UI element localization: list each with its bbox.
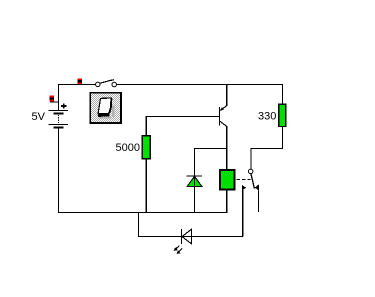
wire top rail left (battery to switch) xyxy=(58,84,96,86)
red indicator I2 (on top rail) xyxy=(78,78,83,84)
relay switch contacts (SPDT) xyxy=(242,169,259,190)
LED emission arrows xyxy=(174,246,183,254)
wire collector down to relay xyxy=(226,126,228,170)
wire diode branch through to bottom rail xyxy=(195,149,227,214)
wire resistor 5000 bottom xyxy=(145,159,147,213)
wire battery bottom to bottom rail xyxy=(58,128,60,213)
wire top rail right (switch to 330 corner) xyxy=(116,84,283,86)
svg-text:330: 330 xyxy=(258,110,276,122)
resistor R2 330 xyxy=(279,104,286,126)
wire relay bottom xyxy=(226,190,228,213)
LED D2 (pointing left) xyxy=(181,229,191,244)
battery B1 5V xyxy=(49,103,68,127)
wire emitter to top rail xyxy=(226,84,228,106)
resistor R1 5000 xyxy=(142,136,150,159)
svg-text:5000: 5000 xyxy=(116,142,140,154)
wire bottom rail xyxy=(58,211,227,213)
transistor Q1 (PNP) xyxy=(220,106,228,127)
wire battery top xyxy=(58,84,60,111)
wire 330 to relay common xyxy=(281,84,283,104)
switch SW1 (open, on top rail) xyxy=(96,80,117,87)
relay coil RL1 xyxy=(220,170,235,190)
node stub for red indicator 1 xyxy=(50,101,59,103)
wire LED branch xyxy=(139,212,244,236)
diode D1 (pointing up) xyxy=(187,176,202,186)
svg-text:5V: 5V xyxy=(32,111,46,123)
wire base elbow (resistor top to transistor base) xyxy=(146,117,219,136)
red indicator I1 (on battery stub) xyxy=(50,96,55,102)
dashed actuation link relay to contacts xyxy=(237,179,251,181)
wire from 330 bottom to relay switch common xyxy=(251,127,282,170)
wire right throw stub xyxy=(257,190,259,212)
switch actuator icon (grey dithered box with rocker) xyxy=(90,93,121,123)
wire left throw down to LED wire xyxy=(242,190,244,237)
